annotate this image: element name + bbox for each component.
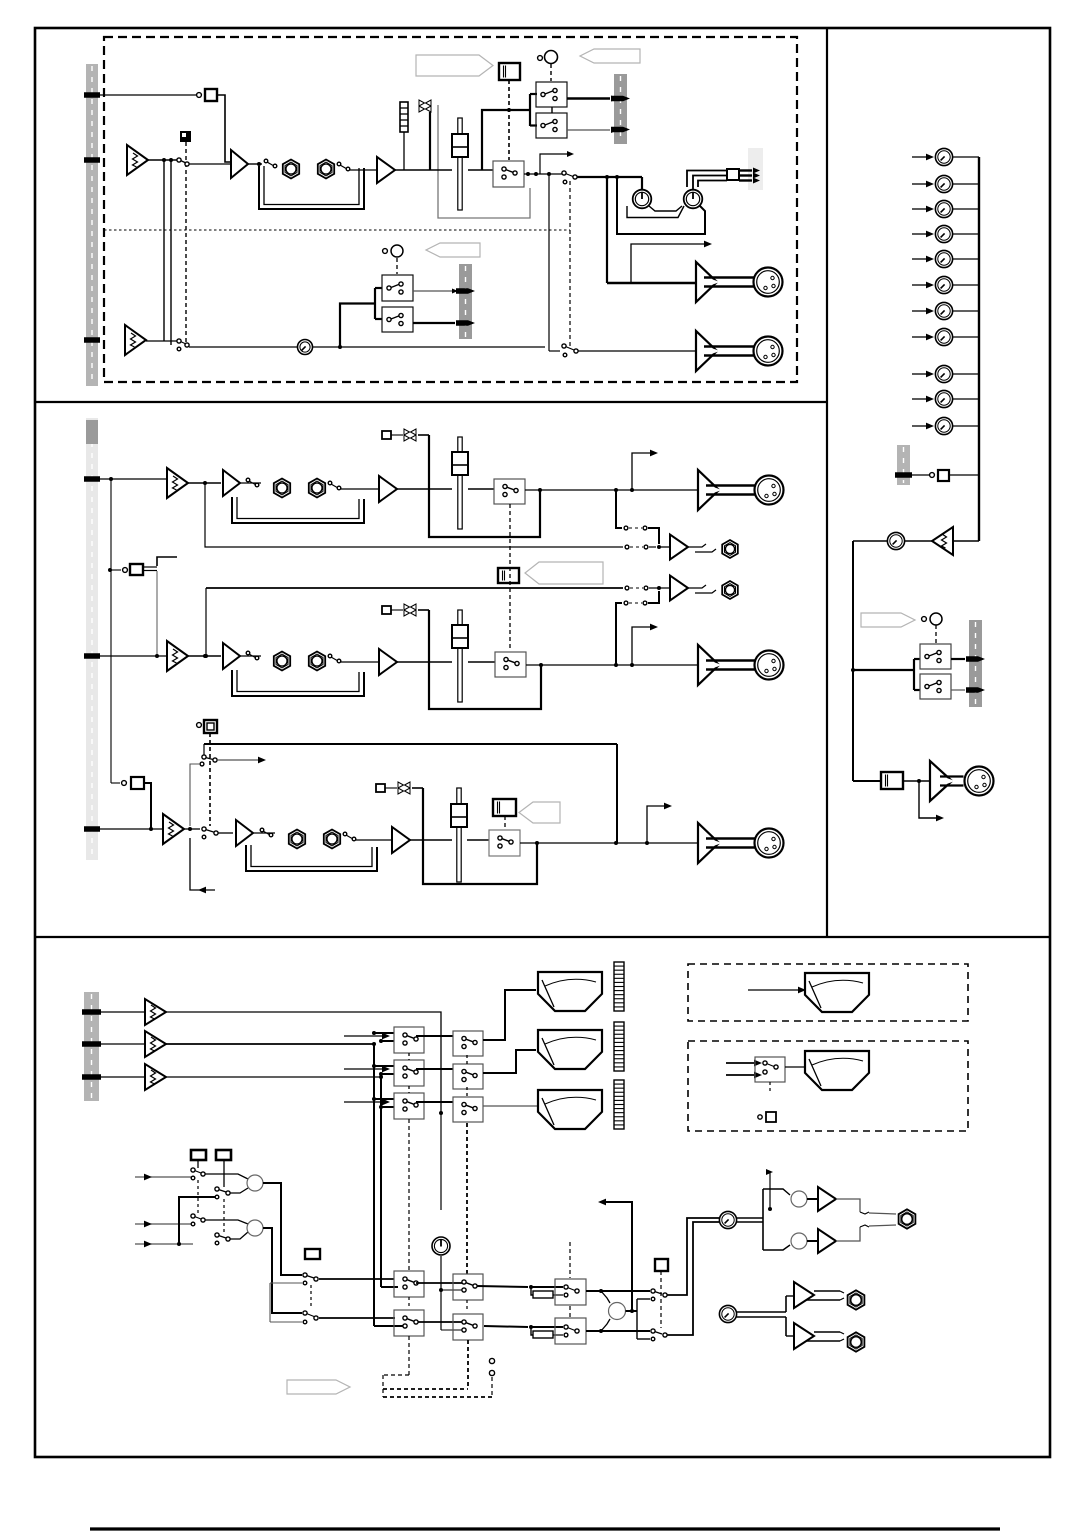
wire meter1 to VU	[483, 990, 536, 1040]
wire meter stubs 1	[372, 1031, 394, 1043]
wire meter link 1	[416, 1035, 453, 1037]
switch mon A box	[920, 644, 951, 669]
label flag channel	[416, 55, 493, 76]
switch cr2 select R	[453, 1314, 483, 1340]
wire pfl arrow	[540, 151, 574, 174]
switch chC input contacts	[202, 827, 218, 839]
wire crL out	[477, 1285, 533, 1289]
wire B alt feed	[340, 288, 382, 347]
op-amp aux2 master	[670, 576, 688, 601]
wire eqA to fader	[397, 488, 452, 490]
switch source button C	[197, 720, 217, 733]
tick effects	[895, 472, 912, 478]
wire mute dashed link	[185, 142, 187, 343]
wire preamp B out	[146, 340, 179, 342]
wire mono out	[626, 1309, 638, 1313]
wire alt3 out	[413, 288, 458, 293]
wire postA link	[509, 504, 511, 650]
wire phones A split	[737, 1189, 763, 1250]
wire post to B dashed	[569, 181, 571, 346]
tick monB	[966, 687, 985, 693]
switch insert A return	[328, 481, 380, 490]
wire aux return 9 to bus	[953, 373, 979, 375]
op-amp group L out	[698, 470, 756, 510]
input bar stereo channels	[86, 418, 98, 860]
wire chB pfl arrow	[632, 624, 658, 665]
wire input C	[98, 828, 163, 830]
label flag alt34	[426, 243, 480, 257]
wire crR	[418, 1321, 464, 1323]
wire meter3 to VU	[483, 1105, 538, 1107]
wire meter arrow 1	[344, 1033, 390, 1040]
switch source col1 row2	[191, 1214, 205, 1226]
switch mute chC	[376, 784, 385, 792]
tick ch C	[84, 826, 100, 832]
wire aux return arrow 6	[912, 282, 934, 289]
switch source col1 row1	[191, 1168, 205, 1180]
wire to mono out	[853, 780, 880, 782]
wire insert C loop	[246, 845, 377, 871]
wire alt4 out	[413, 322, 455, 324]
op-amp eq chC	[392, 827, 410, 853]
switch mon B box	[920, 674, 951, 699]
bus effects bar	[897, 445, 910, 485]
switch source col2 row2	[215, 1233, 230, 1245]
wire auxA post tap	[616, 490, 622, 528]
sum node playback R	[205, 1220, 263, 1239]
wire faderC out	[467, 839, 489, 841]
jack insert C send	[289, 830, 305, 849]
wire mono split	[637, 1299, 650, 1339]
potentiometer aux return 9	[935, 365, 952, 382]
wire down to group amp	[606, 177, 608, 283]
potentiometer pan L	[633, 190, 652, 209]
label button aux	[498, 568, 519, 583]
wire aux return arrow 9	[912, 371, 934, 378]
switch meter source box 1	[394, 1027, 424, 1053]
switch mute button CH1	[180, 131, 191, 142]
op-amp aux master	[932, 527, 979, 555]
op-amp eq chB	[379, 649, 397, 675]
node link circles	[489, 1358, 494, 1375]
wire loop from tape	[616, 744, 618, 843]
wire cr2 link	[467, 1300, 468, 1388]
wire preamp A out	[188, 481, 221, 485]
clip chA	[391, 429, 416, 441]
wire source arrow 1	[135, 1174, 193, 1181]
tick monA	[966, 656, 985, 662]
wire to fader	[395, 169, 452, 171]
wire chC out	[520, 841, 697, 845]
wire phB L	[786, 1295, 794, 1297]
switch source col2 row1	[215, 1187, 230, 1199]
wire buffer B out	[240, 655, 261, 657]
potentiometer aux return 8	[935, 328, 952, 345]
switch mono cr button	[655, 1259, 668, 1328]
tick line input	[84, 157, 100, 163]
switch phantom S1	[205, 89, 217, 101]
meter VU option2	[805, 1051, 869, 1090]
wire aux link	[551, 107, 553, 113]
led bar 1	[614, 962, 624, 1011]
switch post-fader box	[493, 161, 524, 187]
wire chA pfl arrow	[632, 450, 658, 490]
op-amp group R out	[698, 645, 756, 685]
sum node playback L	[205, 1174, 263, 1193]
wire phantom to preamp	[217, 95, 231, 162]
wire group arrow	[631, 241, 712, 283]
wire tape arrow	[218, 757, 266, 764]
wire aux return 8 to bus	[953, 336, 979, 338]
wire phones bus R	[667, 1222, 719, 1335]
switch alt3 box	[382, 275, 413, 301]
switch 2tk button 2	[216, 1150, 231, 1160]
tick main R	[82, 1041, 101, 1047]
wire tape return line	[204, 744, 617, 755]
op-amp eq chA	[379, 476, 397, 502]
jack phones B L	[848, 1290, 865, 1309]
wire preamp B out	[188, 654, 221, 658]
wire cr up arrow	[598, 1199, 632, 1311]
wire to group amp	[607, 282, 696, 284]
wire crR to mono	[586, 1319, 650, 1333]
wire mono link	[902, 779, 931, 783]
jack insert A send	[274, 479, 290, 498]
divider between channel sections and master section	[35, 936, 1050, 938]
potentiometer phones A level	[719, 1211, 736, 1228]
meter VU left	[538, 972, 602, 1011]
sum node mono cr	[609, 1303, 626, 1320]
wire prefader tap	[482, 94, 537, 170]
switch small button mid	[305, 1249, 320, 1259]
switch meter range box 1	[453, 1031, 483, 1056]
label flag monitor	[861, 613, 915, 627]
tick alt4	[456, 320, 475, 326]
switch postB box	[495, 652, 526, 677]
bus monitor bar	[969, 620, 982, 707]
wire meter arrow 3	[344, 1099, 390, 1106]
fader CH1 level	[452, 118, 468, 210]
wire cr tap arrow	[766, 1169, 773, 1211]
potentiometer aux return 1	[935, 148, 952, 165]
wire auxB line	[206, 587, 623, 589]
wire selectB down	[156, 571, 158, 656]
switch 2tk button 1	[191, 1150, 206, 1160]
wire pan outputs	[687, 171, 727, 191]
divider mono/stereo channel	[35, 401, 827, 403]
wire phones L out	[836, 1199, 896, 1214]
wire crL	[416, 1282, 464, 1284]
wire chA aux tap	[205, 483, 623, 547]
wire aux return arrow 7	[912, 308, 934, 315]
wire buffer A out	[240, 482, 261, 484]
wire meter link dashed long	[409, 1119, 467, 1275]
connector XLR out R	[755, 651, 784, 680]
wire meter2 to VU	[483, 1050, 536, 1073]
tick input B	[84, 337, 100, 343]
bus monitor R	[380, 1077, 382, 1287]
wire direct arrows	[739, 168, 760, 184]
node preamp out	[162, 158, 173, 162]
op-amp phones B L	[794, 1282, 814, 1308]
resistor dim L	[533, 1291, 563, 1298]
switch mono button	[881, 772, 903, 789]
tick alt3	[456, 288, 475, 294]
wire meter2	[166, 1042, 376, 1046]
jack aux send 2	[722, 581, 738, 599]
bus aux sends bar	[614, 74, 627, 144]
potentiometer alt34 pan	[383, 245, 403, 274]
op-amp phones B R	[794, 1323, 814, 1349]
wire post to B solid	[549, 174, 560, 351]
dashed box mono channel	[104, 37, 797, 382]
switch insert B return	[328, 654, 380, 663]
connector XLR mono	[965, 767, 994, 796]
switch insert C return	[343, 832, 393, 841]
wire meter stubs 2	[372, 1064, 394, 1076]
divider right column	[826, 28, 828, 937]
wire insert A loop	[232, 497, 364, 523]
wire selectB link	[143, 557, 177, 571]
label flag bottom	[287, 1380, 350, 1394]
potentiometer aux pan	[538, 51, 558, 82]
node line select	[109, 477, 113, 481]
wire aux return 4 to bus	[953, 233, 979, 235]
wire aux return 11 to bus	[953, 425, 979, 427]
wire meter box links	[409, 1053, 467, 1097]
wire phones src link	[310, 1285, 312, 1309]
op-amp mic preamp A1	[127, 145, 148, 175]
tick aux2	[611, 127, 630, 133]
wire buffer C out	[253, 832, 275, 834]
switch option2 button	[758, 1112, 776, 1122]
wire aux return arrow 2	[912, 181, 934, 188]
wire sum R feed	[763, 1245, 790, 1250]
wire mon feed	[851, 659, 920, 690]
wire meter link 2	[416, 1068, 453, 1070]
wire preamp out	[148, 159, 179, 161]
wire option2 to VU	[785, 1066, 805, 1068]
bus alt out bar	[459, 264, 472, 339]
wire source btn2 link	[223, 1160, 225, 1233]
tick stereo head	[86, 420, 98, 444]
label flag chC	[519, 802, 560, 823]
potentiometer aux return 4	[935, 225, 952, 242]
tick aux1	[611, 96, 630, 102]
op-amp meter amp 2	[145, 1031, 166, 1057]
wire aux return 7 to bus	[953, 310, 979, 312]
clip chC	[385, 782, 410, 794]
switch mono sel R	[651, 1329, 667, 1341]
wire eq bypass	[438, 105, 530, 218]
wire chA out	[525, 488, 697, 492]
resistor dim R	[533, 1331, 563, 1338]
switch B out contacts	[562, 344, 578, 357]
op-amp buffer chA	[223, 470, 240, 496]
wire sourceC dashed	[209, 733, 211, 826]
switch tape contacts	[202, 755, 217, 762]
switch option2 box	[755, 1057, 785, 1082]
potentiometer aux return 11	[935, 417, 952, 434]
wire sumR to amp	[807, 1240, 818, 1242]
switch auxA post contacts	[624, 526, 659, 544]
wire monitor arrow	[190, 838, 215, 893]
wire dim L	[531, 1287, 533, 1295]
wire source btn1 link	[197, 1160, 199, 1214]
sum node phones L	[791, 1191, 807, 1207]
switch mute contacts	[177, 158, 189, 166]
wire source arrow 3	[135, 1241, 193, 1248]
wire meter link 3	[416, 1101, 453, 1103]
switch mute chA	[382, 431, 391, 439]
wire source cross	[177, 1197, 215, 1246]
switch line select button C	[111, 777, 144, 789]
wire eqC to fader	[410, 839, 452, 841]
wire fader out	[468, 169, 493, 171]
meter VU option1	[805, 973, 869, 1012]
wire alt feed R	[270, 1321, 302, 1323]
switch insert return contact	[337, 162, 377, 171]
op-amp preamp chA	[167, 468, 188, 498]
connector XLR group L	[754, 268, 783, 297]
wire sumL to amp	[807, 1198, 818, 1200]
meter VU mid	[538, 1030, 602, 1069]
switch phones src L	[303, 1273, 318, 1285]
wire meter1	[166, 1012, 441, 1113]
label flag aux sends	[525, 562, 603, 584]
fader chC	[451, 788, 467, 882]
op-amp line amp A2	[231, 150, 248, 178]
jack insert C return	[324, 830, 340, 849]
potentiometer phones B level	[719, 1305, 736, 1322]
switch insert A send	[246, 478, 259, 487]
switch insert C send	[260, 828, 273, 837]
connector XLR out L	[755, 476, 784, 505]
wire faderA out	[468, 488, 494, 490]
potentiometer mon pan	[922, 613, 942, 643]
wire sum L feed	[763, 1189, 790, 1195]
op-amp buffer chC	[236, 820, 253, 846]
input bar master	[84, 992, 99, 1101]
switch effects to mix	[938, 470, 979, 481]
switch postA box	[494, 479, 525, 504]
op-amp preamp B	[125, 325, 146, 355]
op-amp meter amp 1	[145, 999, 166, 1025]
potentiometer monitor level	[432, 1237, 450, 1255]
op-amp aux1 master	[670, 535, 688, 560]
switch chC on button	[493, 799, 516, 829]
jack phones A	[899, 1209, 916, 1228]
wire crL to mono	[586, 1289, 650, 1303]
sum node phones R	[791, 1233, 807, 1249]
op-amp mono out	[930, 761, 964, 801]
wire busR join	[374, 1325, 406, 1327]
switch postC box	[489, 830, 520, 856]
wire B path	[189, 346, 298, 348]
wire phones R	[319, 1317, 395, 1319]
switch mono sel L	[651, 1289, 667, 1301]
wire phones bus L	[667, 1218, 719, 1295]
wire select bus	[110, 479, 112, 783]
switch auxA contacts	[625, 545, 656, 549]
switch dim R box	[555, 1318, 586, 1344]
wire chB aux tap	[204, 588, 208, 658]
wire playback L	[263, 1183, 302, 1275]
wire mono arrow	[919, 781, 944, 821]
eq gain ladder	[400, 102, 408, 170]
switch alt4 box	[382, 307, 413, 332]
potentiometer aux return 10	[935, 390, 952, 407]
wire phones B split	[737, 1296, 786, 1336]
led bar 3	[614, 1080, 624, 1129]
fader chB	[452, 610, 468, 702]
wire post out	[524, 172, 564, 176]
wire mute bus A	[418, 435, 540, 537]
wire mute bus B	[418, 610, 541, 709]
wire source arrow 2	[135, 1221, 193, 1228]
node effects circle	[930, 473, 935, 478]
switch line select button B	[108, 564, 143, 575]
wire cr link dash	[408, 1297, 410, 1375]
wire mute bus C	[412, 788, 537, 884]
wire to aux pot	[905, 540, 932, 542]
wire aux return 3 to bus	[953, 208, 979, 210]
wire direct L	[531, 1286, 563, 1288]
potentiometer aux return 6	[935, 276, 952, 293]
led bar 2	[614, 1022, 624, 1071]
switch tape contact 2	[190, 762, 204, 826]
wire to amp A2	[189, 163, 231, 165]
wire option2 arrows	[726, 1060, 762, 1079]
jack phones B R	[848, 1332, 865, 1351]
wire aux return arrow 4	[912, 231, 934, 238]
input bar CH1	[86, 64, 98, 386]
wire aux return 5 to bus	[953, 258, 979, 260]
wire aux return 6 to bus	[953, 284, 979, 286]
wire busL join	[381, 1286, 398, 1288]
wire insert B loop	[232, 670, 364, 696]
op-amp meter amp 3	[145, 1064, 166, 1090]
wire preamp C out	[184, 827, 200, 831]
potentiometer aux return 2	[935, 175, 952, 192]
wire phB L out	[806, 1291, 844, 1300]
switch meter range box 2	[453, 1064, 483, 1089]
wire auxA line	[657, 545, 670, 549]
wire pan bracket	[617, 177, 705, 234]
wire bar to amp1	[99, 1011, 145, 1013]
jack insert B return	[309, 652, 325, 671]
wire phB R	[786, 1335, 794, 1337]
meter VU low	[538, 1090, 602, 1129]
node phantom circle	[197, 93, 202, 98]
dashed box meter option 1	[688, 964, 968, 1021]
switch cr select R	[394, 1310, 424, 1336]
wire playback R	[263, 1228, 302, 1313]
connector XLR group R	[754, 337, 783, 366]
wire alt feed L	[270, 1283, 302, 1322]
wire meter3	[166, 1075, 383, 1079]
op-amp preamp chB	[167, 641, 188, 671]
switch direct out	[727, 169, 739, 180]
wire to buffer C	[218, 832, 233, 834]
label flag aux	[580, 49, 640, 63]
bus monitor L	[373, 1044, 375, 1326]
op-amp phones L	[818, 1187, 836, 1211]
bus direct out bar	[748, 148, 763, 190]
wire dim link	[569, 1242, 571, 1318]
wire crR out	[484, 1325, 533, 1329]
wire phB R out	[806, 1332, 844, 1341]
